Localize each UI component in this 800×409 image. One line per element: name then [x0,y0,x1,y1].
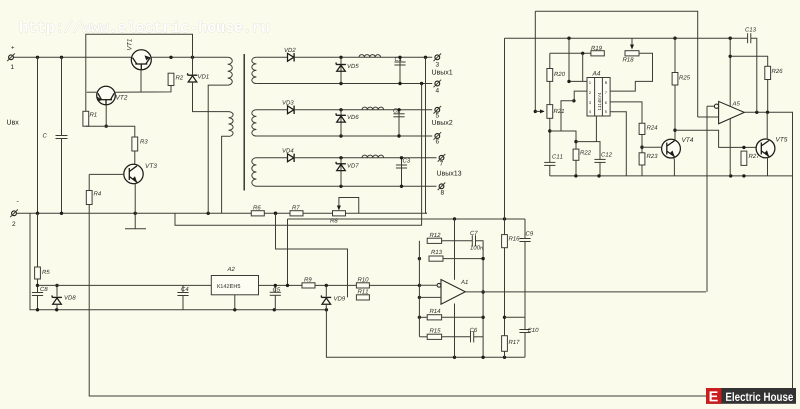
node mid supply junctions [453,217,506,220]
wire secondary1 top [256,56,287,58]
resistor R7 [290,211,303,216]
capacitor C13 [747,33,749,43]
transformer secondary winding 1 [252,57,257,83]
wire VD4 to C3 [294,157,437,159]
wire VT3 base [89,173,124,175]
node R19 node [581,52,584,55]
wire A5 noninv input [698,116,719,118]
wire A1 output [465,291,706,293]
wire R22 bottom [575,160,577,176]
node VT4 base node [640,146,643,149]
node C1 taps [398,56,401,59]
transistor VT5 [756,139,775,158]
wire secondary1 bottom [256,83,432,85]
node VD6 taps [339,108,342,111]
wire R22 feed [550,131,576,149]
node R27 top node [742,146,745,149]
IC A4 box [587,78,610,117]
wire VT5 emitter [767,157,769,176]
wire input + rail [14,56,131,58]
wire C10 jog [505,316,526,318]
wire R20 branch [549,53,551,68]
resistor R11 [356,295,369,300]
wire C3 branch [401,158,403,187]
zener VD6 [336,114,346,116]
wire R15 line [420,336,428,338]
capacitor C6 [470,331,472,342]
resistor R27 [741,151,747,165]
wire control ground rail [550,175,793,177]
node negative rail junctions [36,212,277,215]
wire R5 branch [37,213,39,267]
resistor R6 [251,211,264,216]
wire A1 negative supply [454,304,456,358]
wire IC right pin6 [610,102,642,123]
node C5 top [274,284,277,287]
capacitor C9 [519,238,530,240]
wire mid supply drop [287,219,289,285]
wire A5 inv column [706,106,708,292]
node control ground junctions [574,174,745,177]
wire A1 input column [418,241,420,337]
wire R21 wiper column [534,11,536,111]
wire A5 output [744,112,792,388]
capacitor C2 [393,113,404,115]
diode VD3 [288,106,294,114]
terminal 3 [435,55,440,60]
op-amp A1 [441,280,465,305]
wire R13 right [443,258,483,260]
wire C13 feed [747,37,749,39]
terminal 5 [435,107,440,112]
resistor R26 [765,66,771,79]
wire VT1 top loop [86,34,193,111]
wire R24 to R23 [641,135,643,153]
resistor R13 [429,256,443,261]
resistor R15 [427,334,441,339]
wire C10 bottom [524,333,526,358]
wire R15 to C6 [442,336,471,338]
wire C9 column top [524,219,526,239]
wire R18 wiper [631,38,633,47]
wire VD8 bottom [56,305,58,310]
op-amp A5 supply line [729,38,731,176]
wire VT4 base [642,146,662,148]
capacitor C4 branch [182,285,184,292]
node feedback column dots [481,257,484,260]
wire C12 bottom [599,162,601,176]
node sense drop junction [286,284,289,287]
wire R18 right path [610,53,652,91]
wire R14 line [420,316,428,318]
node R21 wiper node [534,110,537,113]
stabilizer A2 box [211,276,258,295]
resistor R24 [639,123,645,134]
op-amp A5 [719,101,745,123]
capacitor C3 [396,164,407,166]
node VD7 taps [339,156,342,159]
terminal 8 [439,184,444,189]
wire VD2 to L1 [294,56,432,58]
resistor R1 [83,111,89,126]
node R16-R17 node [503,316,506,319]
resistor R19 [591,51,604,56]
transformer feedback winding [229,112,234,137]
transformer core [243,54,245,191]
wire IC left branch [561,101,574,131]
resistor R4 [86,191,92,205]
inductor L3 [362,155,384,158]
resistor R12 [427,238,441,243]
node C3 taps [400,156,403,159]
resistor R20 [547,69,553,82]
label Uvx [7,120,19,125]
wire top reference loop [535,11,697,117]
resistor R18 trimmer [625,51,639,56]
wire R8 wiper loop [339,198,359,214]
resistor R22 [573,149,579,160]
node VD8 top [55,284,58,287]
wire sense divider down [276,213,348,297]
capacitor C12 [594,158,605,160]
terminal 2 [12,211,17,216]
wire secondary2 bottom [256,135,432,137]
capacitor C1 [394,61,405,63]
wire R16 to R17 [504,248,506,336]
node C2 taps [397,108,400,111]
watermark text [20,21,269,35]
zener VD9 [321,296,331,298]
wire out1+ sense down [426,57,428,213]
node R22 top node [574,140,577,143]
wire C9 to C10 [524,242,526,330]
wire VT1 collector down [140,70,142,92]
node A5 output junctions [755,111,769,114]
wire secondary3 bottom [256,185,436,187]
wire R26 bottom [767,80,769,113]
resistor R25 [672,73,678,86]
wire control supply rail [505,37,748,39]
logo Electric House [706,388,796,404]
wire R19 tap down [582,53,584,81]
wire R25 branch [674,38,676,72]
terminal 1 [9,55,14,60]
node IC left node [572,99,575,102]
node VD9 top [325,284,328,287]
wire primary bottom [208,85,228,213]
wire VD1 anode [192,57,194,75]
wire sense line [38,284,420,286]
transistor VT1 [131,50,151,70]
zener VD8 [52,296,62,298]
zener VD7 [336,163,346,165]
diode VD4 [288,154,294,162]
wire VT2 base left [87,91,97,93]
wire VT3 base to R4 [88,174,90,190]
wire R12 to C7 [442,240,473,242]
wire R14 right [442,316,484,318]
wire VD8 branch [56,285,58,296]
wire out1- sense down [421,84,423,226]
wire VD6 branch [340,110,342,136]
wire R1 bottom to R3 [86,126,135,137]
wire VD9 bottom [325,305,327,310]
wire feedback winding bottom [222,136,229,213]
terminal 4 [435,81,440,86]
wire VD9 branch [325,285,327,296]
wire C8 bottom [37,296,39,310]
node VT4 collector node [673,129,676,132]
node A1 inputs column [418,284,421,287]
wire A1 inv input [419,284,437,286]
wire C13 right [751,38,757,112]
wire R4 down feedback [89,205,706,397]
wire IC left pin2 [574,91,587,101]
transformer secondary winding 3 [252,158,257,186]
wire left vertical from input rail [37,57,39,213]
wire A2 ground pin [234,295,236,310]
wire R19 feed [550,52,591,54]
resistor R23 [639,153,645,165]
wire VT2 to R2 node [115,86,171,93]
wire R21 to C11 [549,118,551,162]
label Uvyh1 [432,70,452,75]
wire R23 bottom [641,165,643,176]
node bottom return junctions [36,308,328,311]
node VD5 taps [339,56,342,59]
node input rail junctions [36,56,194,59]
label Uvyh13 [437,171,461,176]
node out1 junctions [424,56,427,59]
wire VD1 cathode to feedback winding [193,82,229,112]
node control rail junctions [567,37,732,40]
wire C12 feed [576,142,600,160]
wire A1 noninv input [419,296,441,298]
wire C7 to feedback column [476,241,484,357]
wire lower return [326,310,525,358]
node R21 bottom node [548,129,551,132]
wire R20-R21 link [549,81,551,104]
resistor R10 [356,283,369,288]
resistor R9 [302,283,315,288]
ground chassis bar [125,228,146,230]
capacitor C5 branch [274,285,276,292]
inductor L2 [362,107,384,110]
wire VT5 collector [766,112,768,139]
wire R3 to VT3 collector [134,151,136,165]
resistor R14 [427,315,441,320]
capacitor C7 [471,235,473,246]
node IC pin1 node [567,80,570,83]
label Uvyh2 [432,120,452,125]
arrow R18 wiper [630,45,634,50]
wire VT2 bottom [105,105,107,126]
node A5 supply tap [729,55,732,58]
wire R5 to C8 [37,279,39,293]
transformer secondary winding 2 [252,110,257,136]
diode VD1 [188,74,198,76]
wire R25 to VT4 [674,85,676,140]
transistor VT3 [124,164,143,183]
node lower return junctions [453,356,506,359]
resistor R3 [132,137,138,151]
capacitor C [56,135,68,137]
transistor VT4 [662,139,681,158]
wire C1 branch [399,57,401,83]
resistor R16 [502,235,508,248]
arrow R21 wiper [535,110,544,112]
terminal 7 [439,155,444,160]
capacitor C11 [544,161,555,163]
wire common return bottom left [30,213,326,309]
zener VD5 [336,64,346,66]
wire capacitor C branch bottom [61,139,63,214]
resistor R5 [35,267,41,279]
wire capacitor C branch top [61,57,63,135]
wire IC right pin5 [610,112,626,176]
capacitor C10 [519,329,530,331]
terminal 6 [435,134,440,139]
resistor R21 [547,105,553,119]
wire C11 bottom [549,165,551,176]
wire C2 branch [398,110,400,136]
wire VD3 to C2 [294,109,432,111]
wire A5 inv input [707,105,714,107]
wire ref divider into IC [569,38,587,81]
diode VD2 [288,53,294,61]
capacitor C8 [32,292,43,294]
wire VT3 emitter [134,184,136,229]
wire aux rail step [175,213,422,225]
wire R26 feed [730,56,768,66]
wire A1 positive supply [454,219,456,280]
node R5 bottom junction [36,284,39,287]
arrow R8 wiper [337,206,341,211]
resistor R17 [502,336,508,352]
node R6-R7 junction [274,212,277,215]
wire IC bottom pin [595,116,597,142]
transformer primary winding [228,57,233,85]
transistor VT2 [97,86,116,105]
wire negative rail [17,212,427,214]
wire R16 column [504,38,506,234]
resistor R2 [168,73,174,85]
wire VT4 to VT5 base [675,130,757,147]
wire R17 bottom [504,351,506,357]
wire VT1 emitter to primary top [152,56,228,58]
wire secondary3 top [256,157,287,159]
inductor L1 [359,55,381,58]
wire VT4 emitter [673,157,676,176]
resistor R8 trimmer [333,211,346,216]
node VT2 emitter junction [105,125,108,128]
wire VD5 branch [340,57,342,83]
wire VD7 branch [340,158,342,187]
wire mid horizontal supply [288,218,526,220]
wire C6 right [474,336,483,338]
wire secondary2 top [256,109,287,111]
